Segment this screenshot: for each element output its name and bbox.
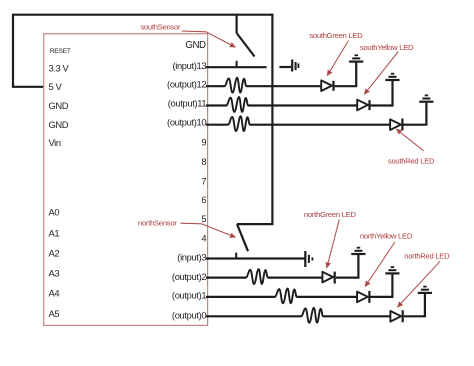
leader southYellow arrow xyxy=(364,52,398,95)
LED southYellow D11 xyxy=(357,100,369,111)
ground southRed xyxy=(419,95,433,101)
resistor R11 xyxy=(226,97,248,112)
ground southGreen xyxy=(349,55,363,61)
svg-text:RESET: RESET xyxy=(50,48,71,55)
wire D0 to ground xyxy=(404,293,425,316)
leader southRed arrow xyxy=(396,129,423,151)
svg-text:GND: GND xyxy=(185,40,206,51)
switch northSensor blade xyxy=(237,224,248,251)
svg-text:GND: GND xyxy=(49,119,69,130)
svg-text:Vin: Vin xyxy=(49,137,61,148)
ground northRed xyxy=(418,287,432,293)
svg-text:(input)13: (input)13 xyxy=(172,60,206,71)
wire pin0 to LED xyxy=(323,315,390,317)
leader northGreen arrow xyxy=(327,220,340,268)
svg-text:(output)12: (output)12 xyxy=(167,78,206,89)
leader southGreen arrow xyxy=(327,41,348,76)
switch southSensor feed stub xyxy=(236,15,238,33)
ground G13 bars xyxy=(292,60,298,72)
wire pin0 left xyxy=(206,315,301,317)
board outline U1 Arduino xyxy=(44,34,208,326)
wire pin3 xyxy=(206,257,305,259)
svg-text:(output)0: (output)0 xyxy=(172,310,207,321)
wire pin11 left xyxy=(206,104,226,106)
ground G13 (sideways) wire xyxy=(279,66,291,68)
switch northSensor contact tick xyxy=(235,253,237,259)
wire pin11 to LED xyxy=(248,104,357,106)
wire D12 to ground xyxy=(335,62,357,87)
wire D1 to ground xyxy=(371,273,393,297)
switch southSensor blade xyxy=(237,33,255,57)
svg-text:(input)3: (input)3 xyxy=(177,252,206,263)
svg-text:(output)2: (output)2 xyxy=(172,271,207,282)
resistor R10 xyxy=(228,116,250,131)
svg-text:8: 8 xyxy=(201,156,206,167)
svg-text:(output)10: (output)10 xyxy=(167,117,206,128)
svg-text:northGreen LED: northGreen LED xyxy=(304,210,357,219)
switch southSensor contact tick xyxy=(236,61,238,67)
svg-text:A5: A5 xyxy=(49,308,60,319)
wire pin1 to LED xyxy=(297,296,357,298)
svg-text:5: 5 xyxy=(201,213,206,224)
svg-text:4: 4 xyxy=(201,232,206,243)
resistor R12 xyxy=(224,78,246,93)
wire pin12 left xyxy=(206,85,224,87)
svg-text:(output)11: (output)11 xyxy=(168,98,207,109)
svg-text:southRed LED: southRed LED xyxy=(388,157,435,166)
svg-text:southGreen LED: southGreen LED xyxy=(309,31,363,40)
svg-text:7: 7 xyxy=(201,176,206,187)
ground northGreen xyxy=(351,248,365,254)
svg-text:A0: A0 xyxy=(49,206,60,217)
wire pin10 left xyxy=(206,124,228,126)
svg-text:(output)1: (output)1 xyxy=(172,289,207,300)
resistor R2 xyxy=(246,269,268,284)
svg-text:northRed LED: northRed LED xyxy=(404,251,450,260)
wire pin10 to LED xyxy=(250,124,390,126)
resistor R0 xyxy=(301,308,323,323)
leader northSensor arrow xyxy=(181,223,236,237)
wire D2 to ground xyxy=(336,254,359,278)
wire D10 to ground xyxy=(404,102,427,125)
wire pin1 left xyxy=(206,296,275,298)
svg-text:northSensor: northSensor xyxy=(138,218,177,227)
svg-text:southYellow LED: southYellow LED xyxy=(360,43,414,52)
LED northRed D0 xyxy=(390,310,402,322)
resistor R1 xyxy=(275,288,297,303)
svg-text:A3: A3 xyxy=(49,268,60,279)
leader southSensor arrow xyxy=(182,31,236,47)
wire 5V feed (top-left L to top rail and long vertical to north switch) xyxy=(13,15,272,224)
svg-text:A4: A4 xyxy=(49,288,60,299)
LED southGreen D12 xyxy=(321,80,333,91)
svg-text:6: 6 xyxy=(201,194,206,205)
svg-text:GND: GND xyxy=(49,100,69,111)
svg-text:3.3 V: 3.3 V xyxy=(49,63,70,74)
wire pin2 left xyxy=(206,277,246,279)
svg-text:5 V: 5 V xyxy=(49,81,63,92)
wire pin2 to LED xyxy=(268,277,322,279)
leader northYellow arrow xyxy=(365,242,395,287)
wire pin13 xyxy=(206,66,267,68)
svg-text:9: 9 xyxy=(201,137,206,148)
LED northYellow D1 xyxy=(357,291,369,303)
svg-text:northYellow LED: northYellow LED xyxy=(360,232,413,241)
leader northRed arrow xyxy=(398,261,441,307)
LED southRed D10 xyxy=(390,119,402,131)
ground southYellow xyxy=(385,74,399,80)
ground northYellow xyxy=(385,267,399,273)
LED northGreen D2 xyxy=(322,272,334,284)
svg-text:A2: A2 xyxy=(49,248,60,259)
svg-text:A1: A1 xyxy=(49,227,60,238)
wire pin12 to LED xyxy=(246,85,321,87)
wire D11 to ground xyxy=(371,80,393,106)
svg-text:southSensor: southSensor xyxy=(140,23,181,32)
ground G3 bars (sideways) xyxy=(305,251,312,267)
